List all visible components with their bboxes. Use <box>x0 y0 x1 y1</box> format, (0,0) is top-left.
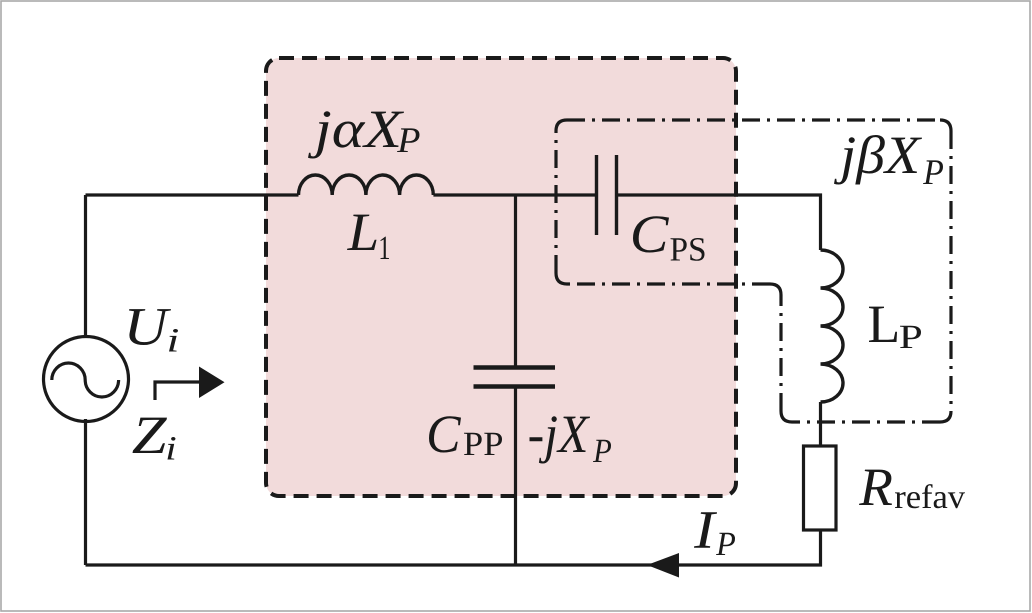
wire left vertical (source bottom) <box>84 419 87 565</box>
capacitor C_PS <box>597 155 617 235</box>
inductor L1 <box>299 175 434 195</box>
wire inductor to C_PS <box>433 193 595 196</box>
wire coil to resistor <box>819 402 822 446</box>
dash-dot box (step outline around C_PS and L_P) <box>556 120 951 422</box>
capacitor C_PP <box>474 368 556 387</box>
wire left vertical (source top) <box>84 195 87 340</box>
label R_refav <box>859 470 965 509</box>
current arrow I_P <box>647 553 679 578</box>
label I_P <box>694 512 735 555</box>
AC source U_i <box>44 337 129 422</box>
wire resistor to bottom <box>86 530 821 565</box>
wire C_PS to right corner, down to coil <box>618 195 821 250</box>
dashed matching-network box (pink) <box>266 58 736 496</box>
label L_P <box>869 307 921 348</box>
junction node to C_PP <box>514 195 517 367</box>
label U_i <box>129 309 178 351</box>
sine symbol <box>52 363 119 397</box>
label C_PP <box>429 416 502 455</box>
label jaX_P <box>308 111 420 158</box>
label L1 <box>347 215 389 259</box>
label Z_i <box>133 418 176 460</box>
label C_PS <box>633 216 705 261</box>
wire top-left horizontal <box>86 193 299 196</box>
inductor L_P <box>821 250 844 402</box>
wire C_PP to bottom <box>514 387 517 565</box>
impedance arrow Z_i <box>155 382 201 400</box>
resistor R_refav <box>804 446 837 530</box>
label jbX_P <box>834 135 943 185</box>
label -jX_P <box>530 416 612 463</box>
